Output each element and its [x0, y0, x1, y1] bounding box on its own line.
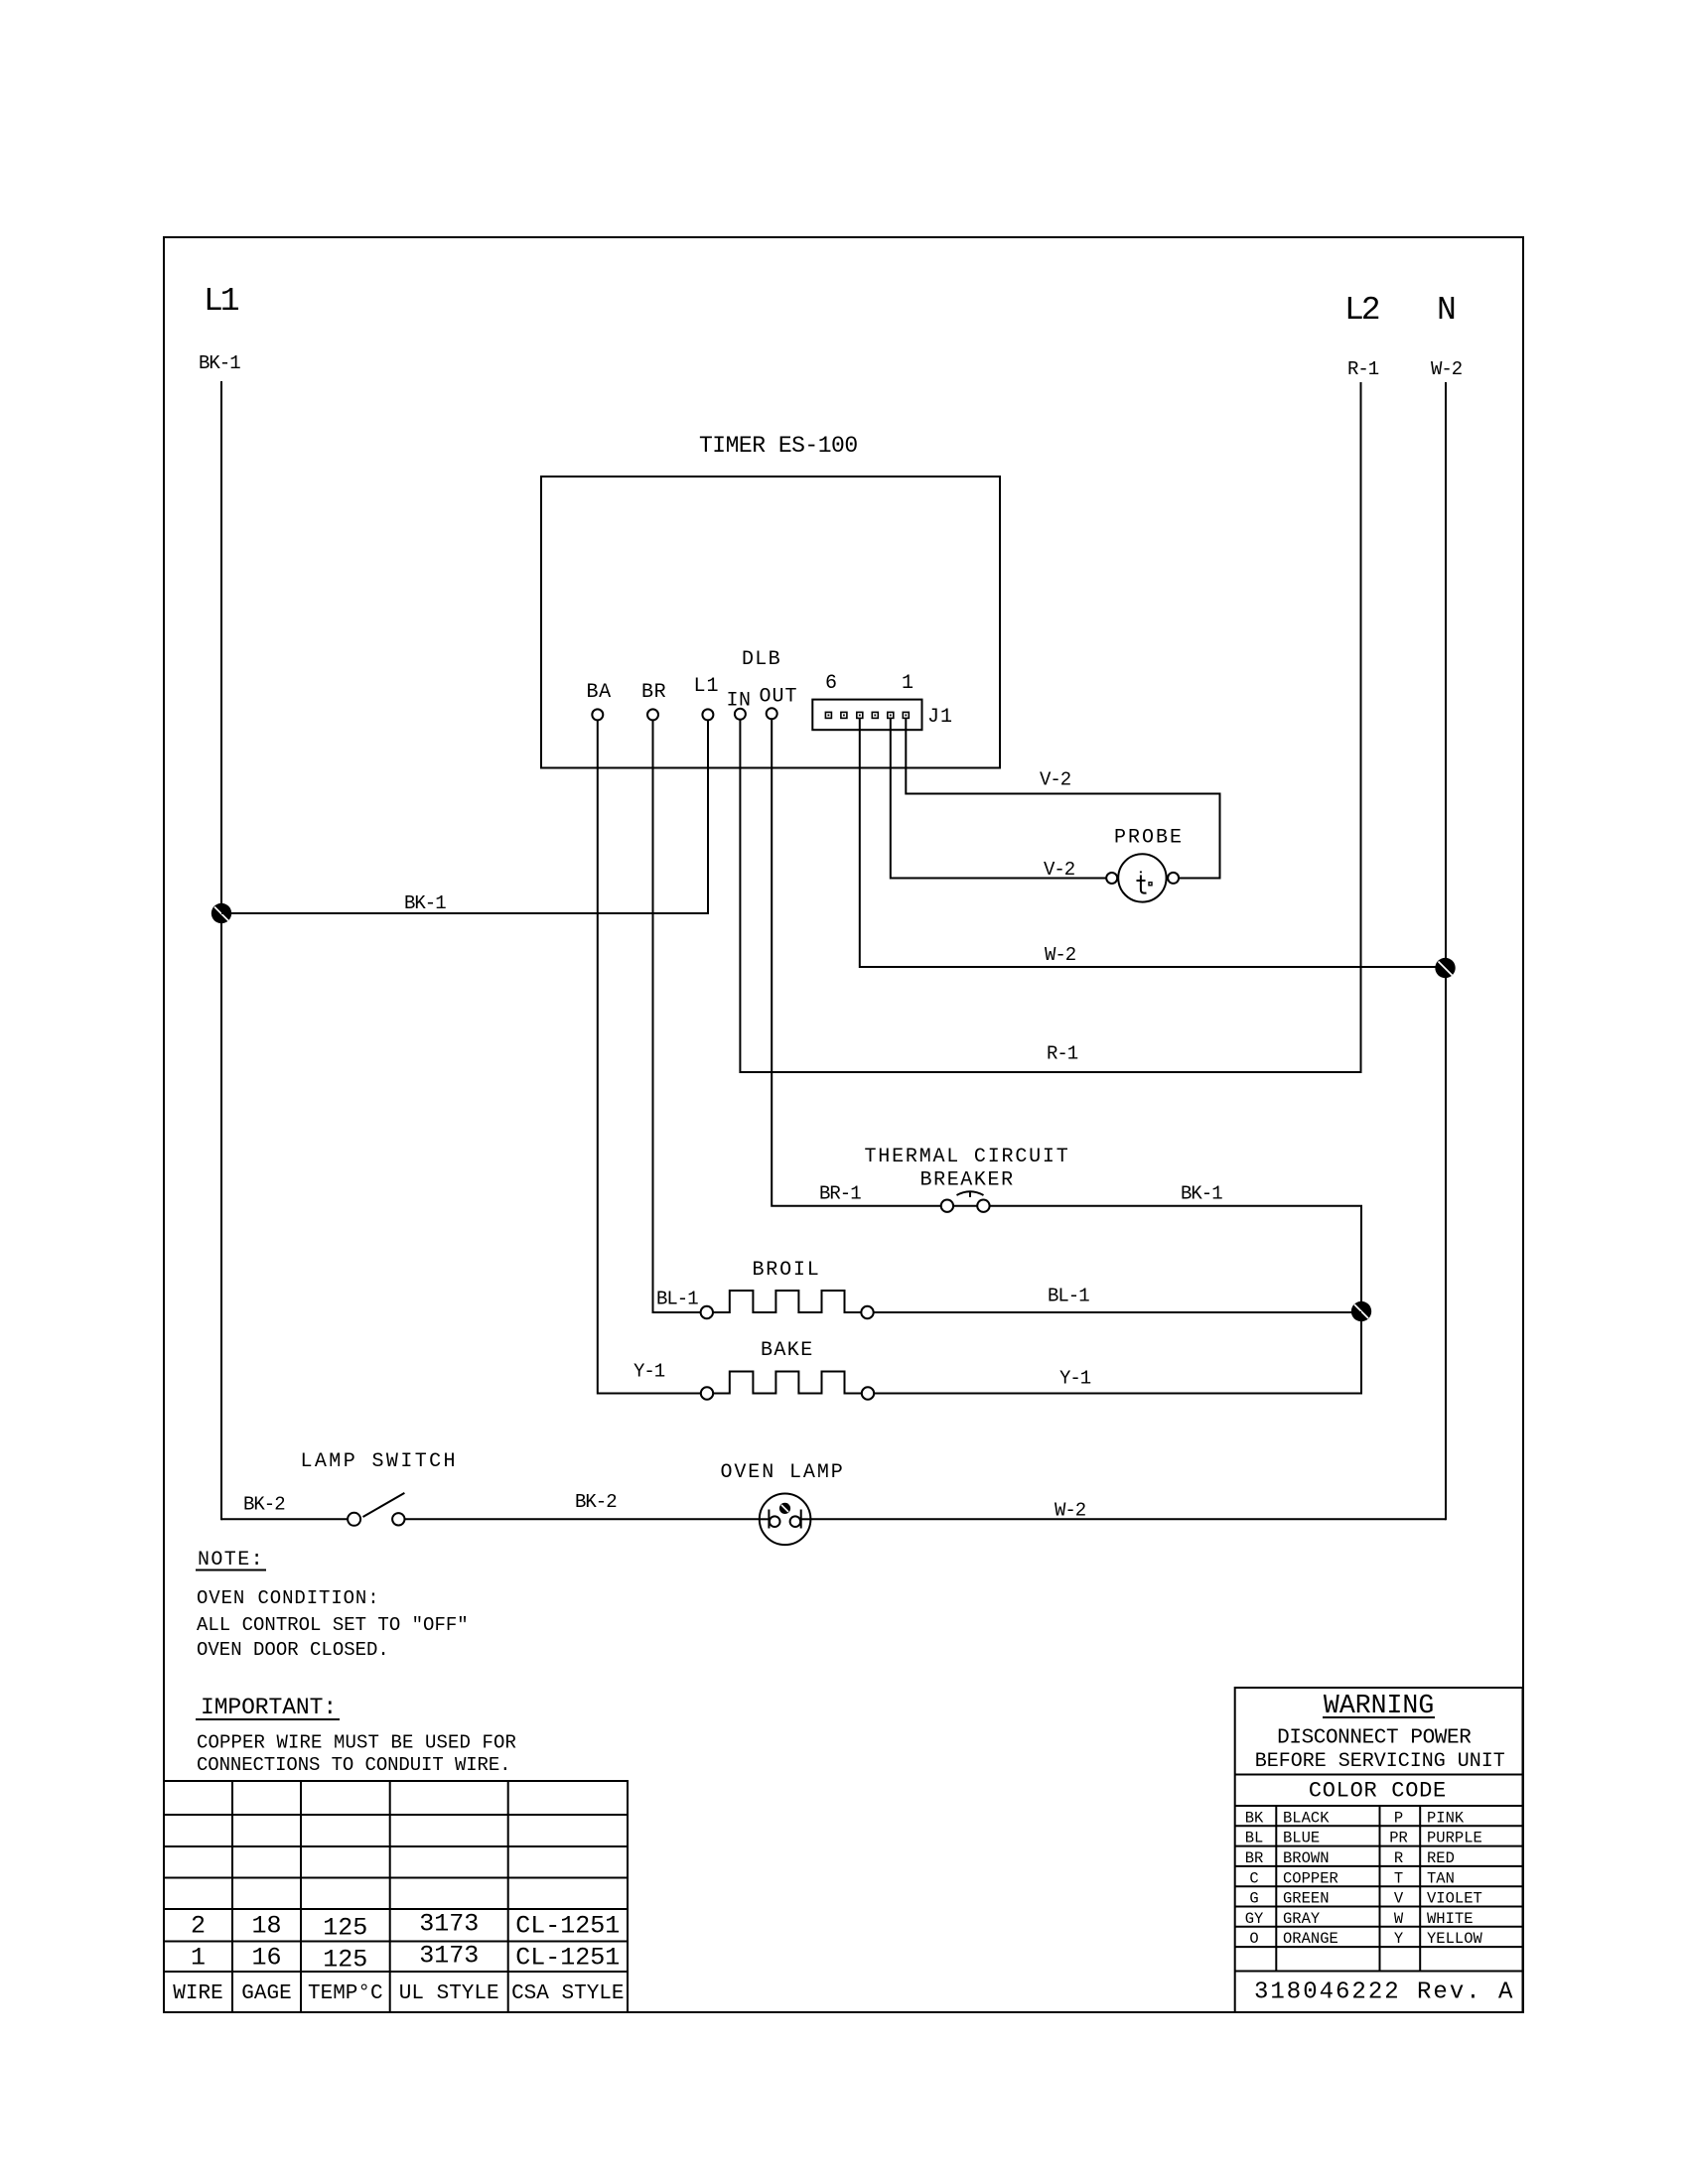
svg-text:YELLOW: YELLOW: [1427, 1930, 1483, 1948]
svg-text:CONNECTIONS TO CONDUIT WIRE.: CONNECTIONS TO CONDUIT WIRE.: [197, 1754, 510, 1776]
svg-text:BK: BK: [1245, 1809, 1264, 1827]
svg-text:IMPORTANT:: IMPORTANT:: [201, 1695, 337, 1720]
svg-text:Y: Y: [1394, 1930, 1404, 1948]
svg-text:125: 125: [323, 1914, 367, 1943]
svg-text:2: 2: [191, 1912, 206, 1941]
svg-text:BR: BR: [641, 681, 666, 704]
wire BA vertical down to BAKE: [598, 720, 701, 1393]
svg-text:RED: RED: [1427, 1849, 1455, 1867]
svg-text:BK-1: BK-1: [404, 892, 446, 914]
svg-text:318046222 Rev. A: 318046222 Rev. A: [1254, 1979, 1514, 2006]
lamp switch contacts: [348, 1513, 360, 1526]
svg-text:ALL CONTROL SET TO "OFF": ALL CONTROL SET TO "OFF": [197, 1614, 469, 1636]
svg-text:Y-1: Y-1: [1059, 1368, 1091, 1390]
wire IN down then R-1 horizontal: [740, 720, 1360, 1072]
svg-text:NOTE:: NOTE:: [198, 1549, 264, 1571]
svg-text:BA: BA: [587, 681, 612, 704]
svg-text:WHITE: WHITE: [1427, 1910, 1474, 1928]
svg-text:J1: J1: [927, 706, 953, 729]
probe terminal left: [1106, 873, 1117, 884]
svg-text:PINK: PINK: [1427, 1809, 1465, 1827]
svg-text:TEMP°C: TEMP°C: [308, 1982, 383, 2005]
svg-text:18: 18: [251, 1912, 281, 1941]
svg-text:WARNING: WARNING: [1324, 1691, 1434, 1720]
color code names col 4: [1427, 1809, 1483, 1948]
svg-text:OVEN CONDITION:: OVEN CONDITION:: [197, 1587, 380, 1609]
svg-text:V-2: V-2: [1040, 769, 1071, 791]
svg-text:GREEN: GREEN: [1283, 1890, 1330, 1908]
svg-text:OUT: OUT: [760, 685, 798, 708]
wire OUT down to breaker: [772, 719, 941, 1205]
svg-text:LAMP SWITCH: LAMP SWITCH: [301, 1450, 458, 1473]
svg-text:WIRE: WIRE: [173, 1982, 222, 2005]
bake heating element: [713, 1372, 862, 1394]
svg-text:O: O: [1249, 1930, 1258, 1948]
color code table grid: [1235, 1806, 1523, 1972]
svg-text:BEFORE SERVICING UNIT: BEFORE SERVICING UNIT: [1255, 1750, 1505, 1773]
svg-text:BLACK: BLACK: [1283, 1809, 1330, 1827]
wire W-2 lamp to right: [810, 1518, 1446, 1520]
svg-text:3173: 3173: [419, 1910, 479, 1939]
junction dot BK-1/BL-1: [1351, 1301, 1371, 1321]
lamp switch blade: [363, 1493, 405, 1517]
svg-text:BL-1: BL-1: [1048, 1286, 1089, 1307]
svg-text:1: 1: [902, 672, 914, 695]
wire table header: [173, 1982, 624, 2005]
probe t glyph: [1137, 872, 1153, 893]
svg-text:BREAKER: BREAKER: [920, 1169, 1015, 1192]
wire spec table: [164, 1781, 628, 2012]
svg-text:C: C: [1249, 1869, 1258, 1887]
J1 pin squares: [825, 712, 909, 718]
wire L1 lead BK-1 vertical: [220, 381, 222, 1520]
svg-text:R: R: [1394, 1849, 1403, 1867]
svg-text:PR: PR: [1389, 1830, 1408, 1847]
wire BK-1 horizontal to timer L1 terminal: [221, 720, 708, 913]
svg-text:UL STYLE: UL STYLE: [399, 1982, 499, 2005]
color code abbreviations col 1: [1245, 1809, 1264, 1948]
svg-text:3173: 3173: [419, 1942, 479, 1971]
terminal OUT: [767, 708, 777, 719]
svg-text:OVEN LAMP: OVEN LAMP: [721, 1461, 845, 1484]
wire BL-1 right: [874, 1311, 1361, 1313]
svg-text:TIMER ES-100: TIMER ES-100: [699, 433, 858, 459]
svg-text:BK-1: BK-1: [1181, 1183, 1222, 1205]
svg-text:PROBE: PROBE: [1114, 827, 1184, 850]
svg-text:BR-1: BR-1: [819, 1183, 861, 1205]
svg-text:V: V: [1394, 1890, 1404, 1908]
junction dot W-2: [1435, 958, 1455, 978]
svg-text:W-2: W-2: [1045, 944, 1076, 966]
svg-text:BR: BR: [1245, 1849, 1264, 1867]
svg-text:DISCONNECT POWER: DISCONNECT POWER: [1277, 1726, 1472, 1749]
svg-text:GAGE: GAGE: [241, 1982, 291, 2005]
lamp internals: [760, 1518, 770, 1520]
svg-text:COPPER WIRE MUST BE USED FOR: COPPER WIRE MUST BE USED FOR: [197, 1732, 516, 1754]
svg-text:G: G: [1249, 1890, 1258, 1908]
svg-text:BROIL: BROIL: [753, 1259, 821, 1282]
terminal L1: [702, 709, 713, 720]
probe body circle: [1118, 854, 1166, 901]
svg-text:L1: L1: [204, 283, 239, 320]
svg-text:BAKE: BAKE: [761, 1339, 814, 1362]
connector J1 box: [812, 700, 921, 731]
svg-text:R-1: R-1: [1347, 358, 1379, 380]
probe terminal right: [1168, 873, 1179, 884]
svg-text:Y-1: Y-1: [633, 1361, 665, 1383]
broil heating element: [713, 1291, 861, 1312]
svg-text:W-2: W-2: [1055, 1500, 1086, 1522]
thermal circuit breaker contacts: [941, 1200, 953, 1212]
svg-text:P: P: [1394, 1809, 1403, 1827]
svg-text:T: T: [1394, 1869, 1403, 1887]
breaker arc: [957, 1191, 984, 1195]
wire table row 1: [191, 1942, 620, 1975]
terminal BR: [647, 709, 658, 720]
svg-text:BK-2: BK-2: [243, 1494, 285, 1516]
svg-text:COPPER: COPPER: [1283, 1869, 1338, 1887]
wire BR vertical down to BROIL: [653, 720, 701, 1312]
svg-text:CL-1251: CL-1251: [515, 1912, 620, 1941]
warning box: [1235, 1688, 1523, 2012]
svg-text:16: 16: [251, 1944, 281, 1973]
svg-text:CL-1251: CL-1251: [515, 1944, 620, 1973]
svg-text:W: W: [1394, 1910, 1404, 1928]
svg-text:BL: BL: [1245, 1830, 1264, 1847]
terminal BA: [592, 709, 603, 720]
svg-text:BLUE: BLUE: [1283, 1830, 1320, 1847]
wire breaker BK-1 to right bus: [990, 1206, 1361, 1395]
border frame: [164, 237, 1523, 2012]
wire J1 pin5 down to probe left: [891, 718, 1106, 878]
wire Y-1 right: [874, 1393, 1361, 1395]
svg-text:OVEN DOOR CLOSED.: OVEN DOOR CLOSED.: [197, 1639, 389, 1661]
color code names col 2: [1283, 1809, 1338, 1948]
wire J1 pin1 down, V-2 over to probe right: [906, 718, 1219, 878]
wire table row 2: [191, 1910, 620, 1943]
svg-text:BL-1: BL-1: [656, 1289, 698, 1310]
svg-text:1: 1: [191, 1944, 206, 1973]
svg-text:BROWN: BROWN: [1283, 1849, 1330, 1867]
svg-text:GY: GY: [1245, 1910, 1264, 1928]
svg-text:6: 6: [825, 672, 837, 695]
wire W-2 vertical from N: [1445, 382, 1447, 1520]
lamp filament dot: [779, 1503, 790, 1514]
svg-text:DLB: DLB: [742, 648, 781, 671]
svg-text:CSA STYLE: CSA STYLE: [511, 1982, 624, 2005]
svg-text:N: N: [1437, 292, 1455, 329]
svg-text:V-2: V-2: [1044, 859, 1075, 881]
svg-text:ORANGE: ORANGE: [1283, 1930, 1338, 1948]
svg-text:R-1: R-1: [1047, 1043, 1078, 1065]
color code abbreviations col 3: [1389, 1809, 1408, 1948]
svg-text:VIOLET: VIOLET: [1427, 1890, 1482, 1908]
svg-text:TAN: TAN: [1427, 1869, 1455, 1887]
timer ES-100 box: [541, 477, 1000, 768]
wire R-1 vertical from L2: [1360, 382, 1362, 1073]
terminal IN: [735, 709, 746, 720]
wire J1 pin3 down to W-2: [860, 718, 1446, 967]
svg-text:PURPLE: PURPLE: [1427, 1830, 1482, 1847]
svg-text:BK-1: BK-1: [199, 352, 240, 374]
wire lamp line left: [221, 1518, 348, 1520]
wire BK-2 to lamp: [405, 1518, 760, 1520]
svg-text:L2: L2: [1344, 292, 1379, 329]
svg-text:W-2: W-2: [1431, 358, 1463, 380]
svg-text:L1: L1: [694, 675, 720, 698]
broil element terminals: [701, 1306, 713, 1318]
svg-text:GRAY: GRAY: [1283, 1910, 1321, 1928]
svg-text:THERMAL CIRCUIT: THERMAL CIRCUIT: [865, 1146, 1070, 1168]
oven lamp body: [760, 1494, 811, 1546]
svg-text:BK-2: BK-2: [575, 1491, 617, 1513]
bake element terminals: [701, 1387, 713, 1399]
junction dot on L1 lead: [211, 903, 231, 923]
svg-text:125: 125: [323, 1946, 367, 1975]
svg-text:COLOR CODE: COLOR CODE: [1309, 1779, 1447, 1804]
